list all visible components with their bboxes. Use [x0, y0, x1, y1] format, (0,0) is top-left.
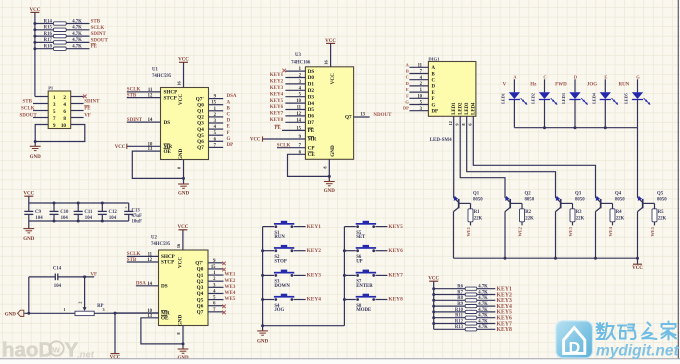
- svg-text:Q3: Q3: [575, 191, 582, 196]
- svg-text:SDINT: SDINT: [84, 100, 100, 105]
- svg-text:4.7K: 4.7K: [72, 45, 82, 50]
- svg-text:12: 12: [448, 121, 453, 125]
- svg-text:Q5: Q5: [197, 133, 204, 139]
- svg-text:Q3: Q3: [197, 121, 204, 127]
- svg-text:15: 15: [296, 126, 301, 131]
- svg-text:LED1: LED1: [501, 93, 506, 104]
- svg-text:3: 3: [103, 307, 105, 312]
- svg-text:4.7K: 4.7K: [478, 314, 488, 319]
- svg-text:F: F: [432, 97, 435, 102]
- svg-text:4.7K: 4.7K: [72, 38, 82, 43]
- svg-text:GND: GND: [178, 314, 184, 326]
- svg-text:C10: C10: [60, 210, 69, 215]
- svg-text:LED2: LED2: [459, 102, 464, 115]
- svg-text:GND: GND: [5, 313, 16, 318]
- svg-text:SDINT: SDINT: [127, 118, 143, 123]
- svg-text:Q0: Q0: [197, 102, 204, 108]
- svg-text:DSA: DSA: [136, 282, 146, 287]
- svg-text:VCC: VCC: [178, 94, 184, 105]
- svg-text:R1: R1: [474, 210, 480, 215]
- svg-text:KEY7: KEY7: [388, 273, 403, 279]
- svg-text:MODE: MODE: [356, 308, 371, 313]
- svg-text:STB: STB: [23, 99, 33, 104]
- svg-text:VCC: VCC: [330, 73, 336, 84]
- svg-text:G: G: [636, 74, 640, 79]
- svg-text:LED5: LED5: [624, 93, 629, 104]
- svg-text:G: G: [405, 100, 409, 105]
- svg-text:mydigit.net: mydigit.net: [596, 343, 680, 360]
- svg-text:R4: R4: [616, 210, 622, 215]
- svg-text:WE3: WE3: [568, 226, 573, 236]
- svg-text:D0: D0: [308, 75, 315, 81]
- svg-text:11: 11: [148, 88, 153, 93]
- svg-text:LED-SM4: LED-SM4: [430, 138, 452, 143]
- svg-text:Q7: Q7: [197, 145, 204, 151]
- svg-text:R11: R11: [455, 314, 463, 319]
- svg-text:14: 14: [148, 118, 153, 123]
- svg-text:D: D: [406, 81, 409, 86]
- svg-text:KEY6: KEY6: [270, 105, 284, 110]
- svg-text:KEY3: KEY3: [307, 273, 322, 279]
- svg-text:WE3: WE3: [225, 285, 236, 290]
- svg-text:15: 15: [211, 265, 216, 270]
- svg-text:PE: PE: [275, 126, 282, 131]
- svg-text:C12: C12: [109, 210, 118, 215]
- svg-text:22K: 22K: [658, 216, 667, 221]
- svg-text:4.7K: 4.7K: [478, 290, 488, 295]
- svg-text:Q5: Q5: [657, 191, 664, 196]
- svg-text:KEY7: KEY7: [270, 112, 284, 117]
- svg-text:R3: R3: [576, 210, 582, 215]
- svg-text:GND: GND: [178, 192, 190, 197]
- svg-text:KEY5: KEY5: [270, 99, 284, 104]
- svg-text:8050: 8050: [525, 198, 535, 203]
- svg-text:DS: DS: [164, 120, 171, 126]
- svg-text:KEY1: KEY1: [307, 224, 322, 230]
- svg-text:4.7K: 4.7K: [478, 296, 488, 301]
- svg-text:KEY8: KEY8: [388, 297, 403, 303]
- svg-text:U2: U2: [151, 236, 157, 241]
- svg-text:NDOUT: NDOUT: [373, 113, 392, 118]
- svg-text:SCLK: SCLK: [127, 252, 141, 257]
- svg-text:10: 10: [296, 99, 301, 104]
- svg-text:F: F: [406, 93, 409, 98]
- svg-text:Q7': Q7': [196, 96, 205, 102]
- svg-text:10uF: 10uF: [132, 220, 142, 225]
- svg-text:A: A: [227, 100, 231, 105]
- svg-text:WE1: WE1: [466, 227, 471, 237]
- svg-text:GND: GND: [178, 148, 184, 160]
- svg-text:4.7K: 4.7K: [72, 26, 82, 31]
- svg-text:R9: R9: [457, 302, 463, 307]
- svg-text:DS: DS: [308, 69, 315, 75]
- svg-text:A: A: [432, 66, 436, 71]
- svg-text:4: 4: [63, 102, 66, 108]
- svg-text:STB: STB: [127, 258, 137, 263]
- svg-text:GND: GND: [23, 237, 35, 242]
- svg-text:R14: R14: [44, 19, 53, 24]
- svg-text:STCP: STCP: [164, 95, 178, 101]
- svg-text:R17: R17: [44, 38, 53, 43]
- svg-text:Q7': Q7': [195, 261, 204, 267]
- svg-text:8050: 8050: [657, 198, 667, 203]
- svg-text:D4: D4: [308, 101, 315, 107]
- svg-text:4.7K: 4.7K: [478, 285, 488, 290]
- svg-text:10: 10: [61, 123, 67, 129]
- svg-text:D: D: [432, 85, 436, 90]
- svg-text:PE: PE: [91, 45, 98, 50]
- svg-text:22K: 22K: [576, 216, 585, 221]
- svg-text:F: F: [227, 131, 230, 136]
- svg-text:74HC166: 74HC166: [291, 61, 311, 66]
- svg-text:R16: R16: [44, 32, 53, 37]
- svg-text:VF: VF: [90, 272, 97, 277]
- svg-text:Q6: Q6: [197, 139, 204, 145]
- svg-text:C: C: [227, 113, 231, 118]
- svg-text:4.7K: 4.7K: [478, 308, 488, 313]
- svg-text:Q4: Q4: [615, 191, 622, 196]
- svg-text:Q2: Q2: [197, 115, 204, 121]
- svg-text:GND: GND: [257, 340, 269, 345]
- svg-text:104: 104: [109, 216, 117, 221]
- svg-text:DP: DP: [403, 106, 409, 111]
- svg-text:11: 11: [148, 252, 153, 257]
- svg-text:Q1: Q1: [197, 273, 204, 279]
- svg-text:C14: C14: [53, 267, 62, 272]
- svg-text:LED3: LED3: [465, 102, 470, 115]
- svg-text:LED3: LED3: [561, 93, 566, 104]
- svg-text:SDOUT: SDOUT: [20, 113, 38, 118]
- svg-text:4.7K: 4.7K: [72, 19, 82, 24]
- svg-text:KEY2: KEY2: [307, 248, 322, 254]
- svg-text:Q6: Q6: [197, 303, 204, 309]
- svg-text:22K: 22K: [474, 216, 483, 221]
- svg-text:WE4: WE4: [225, 291, 236, 296]
- svg-text:13: 13: [147, 314, 152, 319]
- svg-text:E: E: [604, 74, 607, 79]
- svg-text:E: E: [432, 91, 435, 96]
- svg-text:8: 8: [63, 116, 66, 122]
- svg-text:22K: 22K: [525, 216, 534, 221]
- svg-text:74HC595: 74HC595: [152, 74, 172, 79]
- svg-text:DP: DP: [227, 143, 234, 148]
- svg-text:D5: D5: [308, 107, 315, 113]
- svg-text:8050: 8050: [473, 198, 483, 203]
- svg-text:DS: DS: [161, 284, 168, 290]
- svg-text:74HC595: 74HC595: [151, 242, 171, 247]
- svg-text:P1: P1: [48, 86, 54, 91]
- svg-text:C: C: [406, 75, 409, 80]
- svg-text:22K: 22K: [616, 216, 625, 221]
- svg-text:10: 10: [417, 94, 422, 99]
- svg-text:JOG: JOG: [587, 82, 597, 87]
- svg-text:WE1: WE1: [225, 273, 236, 278]
- svg-text:Q4: Q4: [197, 291, 204, 297]
- svg-text:+: +: [125, 205, 128, 210]
- svg-text:STB: STB: [127, 93, 137, 98]
- svg-text:D3: D3: [308, 94, 315, 100]
- svg-text:Hz: Hz: [530, 82, 537, 87]
- svg-text:4.7K: 4.7K: [478, 319, 488, 324]
- svg-text:STB: STB: [91, 20, 101, 25]
- svg-text:D: D: [574, 74, 577, 79]
- svg-text:13: 13: [148, 147, 153, 152]
- svg-text:14: 14: [147, 282, 152, 287]
- svg-text:MR: MR: [308, 137, 317, 143]
- svg-text:C: C: [543, 74, 546, 79]
- svg-text:Q5: Q5: [197, 297, 204, 303]
- svg-text:KEY8: KEY8: [497, 327, 513, 333]
- svg-text:UP: UP: [356, 259, 362, 264]
- svg-text:KEY5: KEY5: [388, 224, 403, 230]
- svg-text:DSA: DSA: [227, 94, 237, 99]
- svg-text:C11: C11: [84, 210, 93, 215]
- svg-text:2: 2: [63, 95, 66, 101]
- svg-text:WE5: WE5: [650, 226, 655, 236]
- svg-text:WE2: WE2: [517, 227, 522, 237]
- svg-text:C9: C9: [35, 210, 41, 215]
- svg-text:KEY8: KEY8: [270, 118, 284, 123]
- svg-text:Q1: Q1: [473, 191, 480, 196]
- svg-text:GND: GND: [330, 145, 336, 157]
- svg-text:Q7: Q7: [345, 115, 352, 121]
- svg-text:Q1: Q1: [197, 109, 204, 115]
- svg-text:4.7K: 4.7K: [478, 325, 488, 330]
- svg-text:G: G: [432, 103, 436, 108]
- svg-text:C13: C13: [132, 209, 141, 214]
- svg-text:U1: U1: [152, 68, 158, 73]
- svg-text:1: 1: [63, 307, 65, 312]
- svg-text:WE4: WE4: [608, 226, 613, 236]
- svg-text:w: w: [52, 345, 61, 355]
- svg-text:E: E: [406, 87, 409, 92]
- svg-text:R18: R18: [44, 45, 53, 50]
- svg-text:6: 6: [63, 109, 66, 115]
- svg-text:Q3: Q3: [197, 285, 204, 291]
- svg-text:15: 15: [211, 101, 216, 106]
- svg-text:KEY6: KEY6: [388, 248, 403, 254]
- svg-text:D1: D1: [308, 82, 315, 88]
- svg-text:VCC: VCC: [178, 257, 184, 268]
- svg-text:GND: GND: [30, 155, 42, 160]
- svg-text:WE5: WE5: [225, 297, 236, 302]
- svg-text:R2: R2: [525, 210, 531, 215]
- svg-text:SDINT: SDINT: [91, 32, 107, 37]
- svg-text:VCC: VCC: [632, 266, 643, 271]
- svg-text:VCC: VCC: [250, 138, 261, 143]
- svg-text:LED2: LED2: [531, 93, 536, 104]
- svg-text:U3: U3: [295, 53, 301, 58]
- svg-text:PE: PE: [308, 128, 315, 134]
- svg-text:11: 11: [418, 63, 423, 68]
- svg-text:R8: R8: [457, 296, 463, 301]
- svg-text:DOWN: DOWN: [274, 284, 290, 289]
- svg-text:GND: GND: [324, 189, 336, 194]
- svg-text:G: G: [227, 137, 231, 142]
- svg-text:LED1: LED1: [452, 102, 457, 115]
- svg-text:SCLK: SCLK: [21, 106, 35, 111]
- svg-text:8050: 8050: [575, 198, 585, 203]
- svg-text:8050: 8050: [615, 198, 625, 203]
- svg-text:Q2: Q2: [525, 191, 532, 196]
- svg-text:104: 104: [61, 216, 69, 221]
- svg-text:47uF: 47uF: [132, 214, 142, 219]
- svg-text:R12: R12: [455, 319, 464, 324]
- svg-text:R7: R7: [457, 290, 463, 295]
- svg-text:12: 12: [148, 94, 153, 99]
- svg-text:OE: OE: [161, 316, 169, 322]
- svg-text:13: 13: [360, 113, 365, 118]
- svg-text:R10: R10: [455, 308, 464, 313]
- svg-text:12: 12: [296, 112, 301, 117]
- svg-text:SDOUT: SDOUT: [91, 38, 109, 43]
- svg-text:ENTER: ENTER: [356, 284, 373, 289]
- svg-text:Q4: Q4: [197, 127, 204, 133]
- svg-text:104: 104: [35, 216, 43, 221]
- svg-text:CE: CE: [308, 152, 316, 158]
- svg-text:OE: OE: [164, 149, 172, 155]
- svg-text:4.7K: 4.7K: [72, 32, 82, 37]
- svg-text:D2: D2: [308, 88, 315, 94]
- svg-text:DIG1: DIG1: [428, 56, 440, 61]
- svg-text:D6: D6: [308, 114, 315, 120]
- svg-text:SCLK: SCLK: [127, 88, 141, 93]
- svg-text:11: 11: [297, 106, 302, 111]
- svg-text:KEY2: KEY2: [270, 80, 284, 85]
- svg-text:RUN: RUN: [618, 82, 629, 87]
- svg-text:KEY1: KEY1: [270, 73, 284, 78]
- svg-text:.net: .net: [77, 350, 95, 361]
- svg-text:VCC: VCC: [115, 145, 126, 150]
- svg-text:SCLK: SCLK: [91, 26, 105, 31]
- svg-text:R13: R13: [455, 325, 464, 330]
- svg-text:14: 14: [296, 118, 301, 123]
- svg-text:SCLK: SCLK: [277, 143, 291, 148]
- svg-text:D7: D7: [308, 120, 315, 126]
- svg-text:JOG: JOG: [274, 308, 284, 313]
- svg-text:FWD: FWD: [555, 82, 567, 87]
- svg-text:STOP: STOP: [274, 259, 287, 264]
- svg-text:104: 104: [85, 216, 93, 221]
- svg-text:CP: CP: [308, 145, 316, 151]
- svg-text:KEY4: KEY4: [307, 297, 322, 303]
- svg-text:R6: R6: [457, 285, 463, 290]
- svg-text:LED4: LED4: [592, 92, 597, 104]
- svg-text:B: B: [406, 69, 409, 74]
- svg-text:WE2: WE2: [225, 279, 236, 284]
- svg-text:C: C: [432, 79, 436, 84]
- svg-text:KEY4: KEY4: [270, 92, 284, 97]
- svg-text:Q2: Q2: [197, 279, 204, 285]
- svg-text:LED4: LED4: [472, 102, 477, 115]
- svg-text:DP: DP: [432, 110, 438, 115]
- svg-text:VF: VF: [84, 114, 91, 119]
- svg-text:SET: SET: [356, 235, 366, 240]
- svg-text:haoD: haoD: [2, 339, 53, 362]
- svg-text:V: V: [503, 82, 507, 87]
- svg-text:4.7K: 4.7K: [478, 302, 488, 307]
- svg-text:R5: R5: [658, 210, 664, 215]
- svg-text:PE: PE: [84, 107, 91, 112]
- svg-text:D: D: [569, 340, 581, 357]
- svg-text:STCP: STCP: [161, 260, 175, 266]
- svg-text:Q7: Q7: [197, 310, 204, 316]
- svg-text:104: 104: [54, 284, 62, 289]
- svg-text:Q0: Q0: [197, 267, 204, 273]
- svg-text:2: 2: [78, 302, 83, 304]
- svg-text:D: D: [227, 119, 231, 124]
- svg-text:R15: R15: [44, 26, 53, 31]
- svg-text:KEY3: KEY3: [270, 86, 284, 91]
- svg-text:RUN: RUN: [274, 235, 285, 240]
- svg-text:12: 12: [147, 258, 152, 263]
